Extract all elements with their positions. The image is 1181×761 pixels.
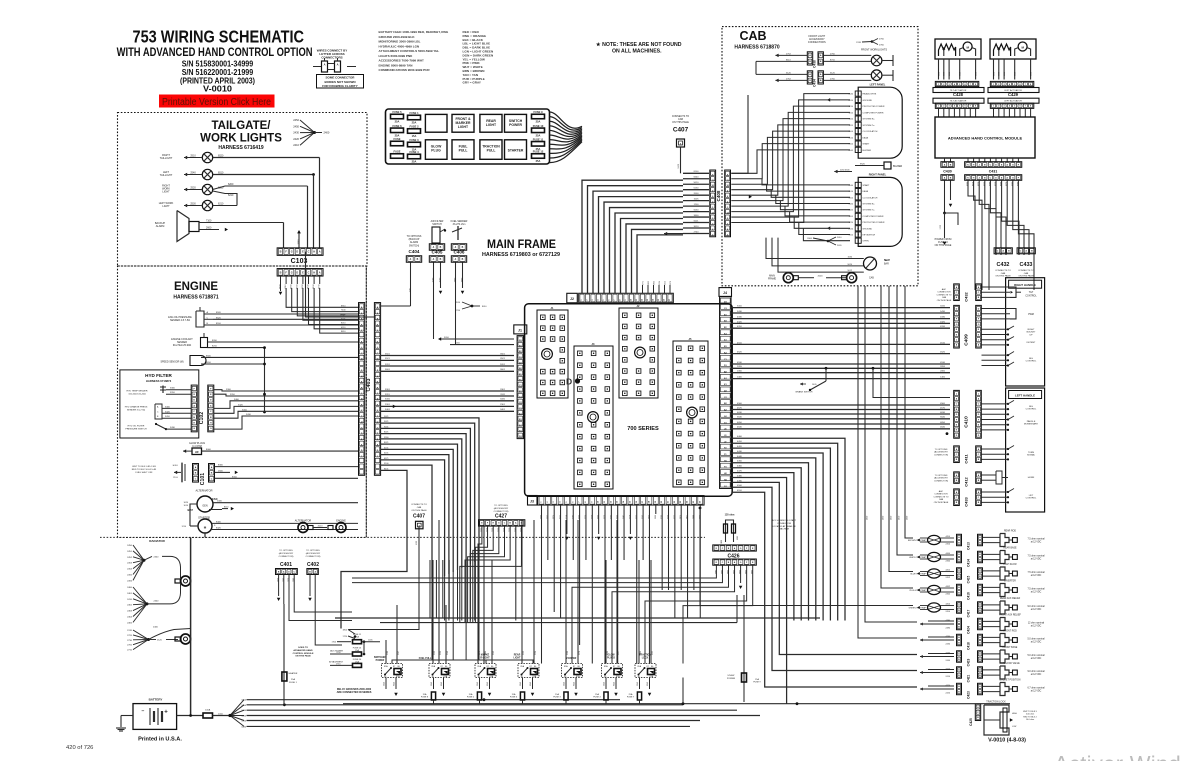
svg-text:A: A — [283, 570, 285, 573]
backup alarm speaker — [177, 211, 189, 242]
svg-text:B: B — [440, 259, 442, 261]
svg-text:8000: 8000 — [206, 449, 212, 451]
svg-text:5197: 5197 — [398, 651, 400, 655]
svg-text:J: J — [979, 177, 981, 179]
svg-text:COMPUTER POWER: COMPUTER POWER — [863, 112, 884, 114]
svg-text:E2: E2 — [724, 327, 727, 329]
svg-text:G3: G3 — [724, 486, 728, 488]
svg-text:CONNECTOR: CONNECTOR — [934, 494, 948, 496]
left actuator — [990, 39, 1036, 59]
connector J2 top — [567, 293, 578, 303]
svg-text:8710: 8710 — [456, 310, 461, 312]
svg-text:MAIN FRAME: MAIN FRAME — [487, 239, 556, 251]
svg-text:A: A — [944, 163, 946, 166]
svg-text:5330: 5330 — [949, 72, 951, 76]
svg-text:B: B — [958, 559, 960, 561]
svg-text:B: B — [1008, 251, 1010, 253]
solenoid connector C424 FRONT AUX RELIEF — [920, 622, 923, 625]
svg-text:6130: 6130 — [694, 188, 700, 190]
wire 4640 to handle — [948, 434, 950, 437]
svg-text:A2: A2 — [519, 424, 523, 427]
svg-text:15A: 15A — [469, 693, 473, 696]
svg-text:D2: D2 — [724, 391, 728, 393]
svg-text:LIGHTS 6000-6999 PNK: LIGHTS 6000-6999 PNK — [379, 54, 414, 58]
svg-text:★ NOTE: THESE ARE NOT FOUND: ★ NOTE: THESE ARE NOT FOUND — [596, 42, 682, 48]
svg-text:ON THIS PAGE: ON THIS PAGE — [411, 509, 427, 512]
svg-text:B: B — [979, 691, 981, 693]
svg-text:2451: 2451 — [127, 551, 133, 553]
svg-text:ON THIS PAGE: ON THIS PAGE — [295, 655, 311, 658]
svg-text:WORK LIGHTS: WORK LIGHTS — [200, 133, 282, 145]
connector C438 pair — [807, 52, 812, 65]
svg-text:B: B — [417, 259, 419, 261]
svg-text:FUSE 6: FUSE 6 — [510, 697, 518, 699]
svg-text:A: A — [734, 547, 736, 550]
svg-text:CONNECTS TO: CONNECTS TO — [1018, 270, 1034, 272]
svg-text:J4: J4 — [723, 291, 727, 295]
svg-text:C419: C419 — [967, 658, 971, 666]
svg-text:C434: C434 — [812, 79, 816, 87]
svg-text:A: A — [433, 246, 435, 249]
svg-text:G: G — [740, 548, 742, 550]
svg-text:2410: 2410 — [293, 143, 299, 147]
svg-text:2000: 2000 — [694, 193, 700, 195]
svg-text:OPEN: OPEN — [863, 241, 870, 243]
relay ground returns — [385, 689, 387, 704]
svg-text:G: G — [956, 324, 958, 326]
radiator dashed border — [100, 536, 705, 538]
svg-text:POWER: POWER — [376, 660, 385, 662]
arrow 2740 left — [664, 232, 667, 236]
svg-text:C407: C407 — [413, 514, 425, 520]
svg-text:F: F — [746, 562, 748, 564]
svg-text:4500: 4500 — [737, 485, 743, 487]
svg-text:A: A — [820, 54, 822, 57]
svg-text:2452: 2452 — [946, 577, 951, 579]
connector C103 mainframe side — [277, 269, 323, 277]
svg-text:BAR: BAR — [884, 263, 889, 266]
svg-text:8610: 8610 — [313, 283, 315, 288]
svg-text:3430: 3430 — [246, 414, 252, 416]
svg-text:A: A — [979, 536, 981, 539]
svg-text:2410: 2410 — [946, 676, 951, 678]
svg-text:FUSE 13: FUSE 13 — [353, 648, 362, 650]
svg-text:2410: 2410 — [127, 599, 133, 601]
svg-text:HARNESS 6718870: HARNESS 6718870 — [734, 45, 780, 51]
svg-text:−: − — [142, 709, 145, 715]
svg-text:TO OPTIONS: TO OPTIONS — [935, 475, 948, 477]
solenoid connector C421 HYD LOCK VALVE — [920, 671, 923, 674]
solenoid connector C423 BUCKET POSITION — [920, 687, 923, 690]
svg-text:86: 86 — [491, 666, 494, 668]
svg-text:C414: C414 — [967, 559, 971, 567]
svg-text:3: 3 — [553, 501, 555, 503]
svg-text:D: D — [978, 308, 980, 310]
svg-text:B: B — [309, 571, 311, 573]
svg-text:CONTROL: CONTROL — [1026, 498, 1037, 500]
svg-text:E: E — [302, 271, 304, 274]
svg-text:HYD TEMP SENDER: HYD TEMP SENDER — [127, 391, 148, 393]
svg-text:FRONT BASE: FRONT BASE — [1003, 646, 1018, 649]
svg-text:SPEED SENSOR (M): SPEED SENSOR (M) — [160, 361, 183, 364]
svg-text:FUSE 8: FUSE 8 — [421, 697, 429, 699]
svg-text:25A: 25A — [395, 120, 400, 124]
svg-text:9100: 9100 — [416, 541, 418, 545]
relay box front & marker light — [452, 114, 474, 132]
svg-text:8210: 8210 — [291, 283, 293, 288]
svg-text:25A: 25A — [395, 134, 400, 138]
svg-text:3401: 3401 — [500, 409, 506, 411]
svg-text:2: 2 — [587, 299, 589, 301]
heater fuse 1 wire — [283, 604, 285, 705]
wire bundle J2 to C408 — [582, 180, 683, 293]
svg-text:BUCKET POSITION: BUCKET POSITION — [1000, 680, 1021, 682]
svg-text:C: C — [193, 411, 195, 413]
svg-text:B2: B2 — [724, 403, 728, 405]
svg-text:9: 9 — [591, 501, 593, 503]
svg-text:BUCKET: BUCKET — [1027, 332, 1037, 334]
svg-text:B: B — [956, 502, 958, 504]
svg-text:3431: 3431 — [385, 399, 391, 401]
tilt actuator — [935, 39, 981, 59]
svg-text:BATTERY: BATTERY — [149, 698, 163, 702]
svg-text:J: J — [858, 185, 860, 187]
svg-text:HYDRAULIC 4000-4999 LGN: HYDRAULIC 4000-4999 LGN — [379, 44, 420, 48]
svg-text:M: M — [377, 359, 379, 361]
svg-text:2740: 2740 — [694, 231, 700, 233]
svg-text:CONNECTOR: CONNECTOR — [937, 292, 951, 294]
left handle internal verticals — [1015, 440, 1017, 460]
svg-text:13: 13 — [617, 500, 619, 503]
svg-text:C: C — [978, 454, 980, 456]
svg-text:at 12 VDC: at 12 VDC — [1031, 625, 1042, 628]
svg-text:C: C — [956, 404, 958, 406]
svg-text:9520: 9520 — [860, 164, 866, 166]
svg-text:HOLD: HOLD — [173, 465, 179, 467]
svg-text:HEATER: HEATER — [289, 672, 298, 675]
svg-text:GROUND: GROUND — [863, 100, 873, 102]
svg-text:HIGH: HIGH — [1012, 713, 1017, 715]
engine box right dashed border — [365, 266, 367, 537]
svg-text:5000: 5000 — [907, 516, 909, 520]
svg-text:15A: 15A — [555, 693, 559, 696]
svg-text:A: A — [958, 604, 960, 607]
svg-text:A: A — [314, 570, 316, 573]
svg-text:15: 15 — [629, 500, 631, 503]
svg-text:A: A — [157, 405, 159, 408]
svg-text:ACCESSORIES 7000-7999 WHT: ACCESSORIES 7000-7999 WHT — [379, 59, 425, 63]
svg-text:C438: C438 — [812, 60, 816, 68]
svg-text:85A: 85A — [478, 665, 482, 668]
wires C405 C406 into mainframe — [433, 302, 435, 339]
svg-text:3276: 3276 — [670, 281, 672, 285]
svg-text:6040: 6040 — [614, 682, 616, 686]
svg-text:3521: 3521 — [500, 358, 506, 360]
svg-text:B: B — [1031, 251, 1033, 253]
svg-text:5178: 5178 — [579, 651, 581, 655]
connector C102 — [191, 385, 197, 432]
svg-text:5192: 5192 — [493, 651, 495, 655]
svg-text:2040: 2040 — [477, 682, 479, 686]
connector C432 handle side — [954, 284, 960, 301]
svg-text:G: G — [1012, 164, 1014, 166]
svg-text:FRONT AUX RELIEF: FRONT AUX RELIEF — [999, 614, 1021, 617]
svg-text:24: 24 — [686, 500, 689, 503]
svg-text:REAR BASE: REAR BASE — [1003, 547, 1017, 550]
svg-text:15: 15 — [658, 298, 660, 301]
wires bundle vertical segment x407-479 — [392, 560, 479, 664]
svg-text:at 12 VDC: at 12 VDC — [1031, 673, 1042, 676]
svg-text:D: D — [716, 562, 718, 564]
svg-text:C: C — [504, 523, 506, 525]
svg-text:4: 4 — [1009, 105, 1011, 108]
svg-text:3410: 3410 — [737, 306, 743, 308]
svg-text:C406: C406 — [454, 250, 465, 255]
svg-text:B: B — [978, 297, 980, 299]
svg-text:2760: 2760 — [879, 45, 885, 47]
svg-text:2750: 2750 — [879, 39, 885, 41]
svg-text:ON THIS PAGE: ON THIS PAGE — [934, 501, 949, 504]
svg-text:D: D — [288, 571, 290, 573]
svg-text:J: J — [956, 339, 958, 341]
svg-text:C: C — [210, 411, 212, 413]
svg-text:B: B — [958, 576, 960, 578]
svg-text:4490: 4490 — [737, 480, 743, 482]
svg-text:COMMUNICATIONS 9000-9999 PUR: COMMUNICATIONS 9000-9999 PUR — [379, 68, 431, 72]
svg-text:H3: H3 — [724, 479, 728, 481]
connector C434 pair — [807, 71, 812, 84]
connector J4 right — [719, 288, 732, 297]
svg-text:CONTROL: CONTROL — [1025, 296, 1037, 298]
svg-text:11: 11 — [604, 500, 606, 503]
svg-text:2740: 2740 — [127, 630, 133, 632]
svg-text:12 ohm nominal: 12 ohm nominal — [1028, 623, 1045, 625]
note some connector bodies not shown — [317, 75, 364, 89]
svg-text:D: D — [978, 435, 980, 437]
svg-text:ALTERNATOR: ALTERNATOR — [195, 489, 212, 493]
svg-text:H1: H1 — [724, 460, 728, 462]
svg-text:22: 22 — [674, 500, 676, 503]
svg-text:A: A — [956, 344, 958, 347]
svg-text:FUSE 3: FUSE 3 — [553, 697, 561, 699]
svg-text:5: 5 — [603, 299, 605, 301]
svg-text:H: H — [857, 125, 859, 127]
svg-text:3300: 3300 — [226, 389, 232, 391]
svg-text:7: 7 — [579, 501, 581, 503]
svg-text:2010: 2010 — [837, 237, 842, 239]
svg-text:GEN: GEN — [202, 505, 207, 508]
svg-text:4460: 4460 — [737, 466, 743, 468]
svg-text:ADVANCED HAND CONTROL MODULE: ADVANCED HAND CONTROL MODULE — [948, 136, 1023, 141]
svg-text:8510: 8510 — [308, 283, 310, 288]
svg-text:3431: 3431 — [500, 399, 506, 401]
svg-text:TILT: TILT — [1029, 292, 1034, 294]
svg-text:C3: C3 — [724, 308, 728, 310]
svg-text:5021: 5021 — [694, 220, 700, 222]
svg-text:5166: 5166 — [567, 651, 569, 655]
right bucket up switch — [982, 328, 1009, 330]
svg-text:CAB: CAB — [942, 296, 947, 299]
svg-text:5201: 5201 — [500, 364, 506, 366]
svg-text:K: K — [956, 430, 958, 432]
svg-text:CAB: CAB — [869, 277, 874, 280]
svg-text:at 12 VDC: at 12 VDC — [1031, 641, 1042, 644]
svg-text:D1: D1 — [724, 365, 728, 367]
svg-text:C102: C102 — [199, 412, 205, 425]
svg-text:E: E — [956, 329, 958, 331]
svg-text:4320: 4320 — [737, 321, 743, 323]
svg-text:UP: UP — [1029, 334, 1033, 336]
svg-text:A: A — [211, 466, 213, 469]
svg-text:9.0 ohm nominal: 9.0 ohm nominal — [1028, 606, 1045, 608]
arrow 2010 left panel — [827, 98, 830, 102]
svg-text:2752: 2752 — [786, 53, 792, 55]
svg-text:F: F — [210, 388, 212, 390]
wires C403 to J1 group1 — [381, 355, 514, 357]
svg-text:2750: 2750 — [830, 53, 836, 55]
svg-text:700 SERIES: 700 SERIES — [627, 426, 659, 432]
actuator wires down — [938, 59, 940, 80]
svg-text:5320: 5320 — [944, 72, 946, 76]
svg-text:3832: 3832 — [648, 281, 650, 285]
svg-text:A: A — [193, 404, 195, 407]
svg-text:5134: 5134 — [535, 651, 537, 655]
svg-text:B: B — [857, 137, 859, 139]
svg-text:C: C — [1020, 251, 1022, 253]
svg-text:LEFT PANEL: LEFT PANEL — [870, 83, 886, 87]
svg-text:F: F — [1018, 164, 1020, 166]
svg-text:B: B — [979, 559, 981, 561]
svg-text:1010: 1010 — [218, 714, 224, 716]
svg-text:CONTROL: CONTROL — [1026, 409, 1037, 411]
svg-text:6210: 6210 — [218, 202, 224, 205]
svg-text:A: A — [979, 636, 981, 639]
svg-text:START: START — [863, 184, 871, 187]
svg-text:8: 8 — [620, 299, 622, 301]
svg-text:A: A — [979, 620, 981, 623]
svg-text:E: E — [978, 424, 980, 426]
horn switch — [982, 474, 997, 476]
svg-text:C428: C428 — [953, 92, 964, 97]
svg-text:F: F — [194, 388, 196, 390]
svg-text:1800: 1800 — [343, 630, 348, 632]
ground chain vertical 2000 — [264, 348, 266, 412]
svg-text:at 12 VDC: at 12 VDC — [1031, 608, 1042, 611]
svg-text:at 12 VDC: at 12 VDC — [1031, 574, 1042, 577]
svg-text:1: 1 — [581, 299, 583, 301]
svg-text:at 12 VDC: at 12 VDC — [1031, 690, 1042, 693]
svg-text:B: B — [157, 416, 159, 418]
svg-text:2060: 2060 — [298, 239, 300, 245]
svg-text:86: 86 — [618, 666, 621, 668]
svg-text:8100: 8100 — [694, 171, 700, 173]
svg-text:85A: 85A — [564, 665, 568, 668]
svg-text:D: D — [716, 548, 718, 550]
connector J1 — [514, 325, 527, 334]
svg-text:A: A — [958, 685, 960, 688]
svg-text:C409: C409 — [964, 334, 970, 346]
svg-text:REAR ROD: REAR ROD — [1004, 530, 1016, 533]
wire stubs J2 pins up — [642, 285, 644, 293]
svg-text:REAR: REAR — [514, 654, 521, 657]
svg-text:F: F — [487, 523, 489, 525]
svg-text:A: A — [958, 570, 960, 573]
svg-text:A: A — [958, 536, 960, 539]
svg-text:2400: 2400 — [324, 131, 330, 135]
svg-text:5.0 ohm nominal: 5.0 ohm nominal — [1028, 639, 1045, 641]
wires J3 down — [541, 505, 543, 514]
svg-text:RADIATOR: RADIATOR — [149, 539, 165, 543]
svg-text:25A: 25A — [629, 693, 633, 696]
svg-text:4630: 4630 — [940, 412, 946, 414]
svg-text:87: 87 — [530, 666, 533, 668]
svg-text:5.00 ohm: 5.00 ohm — [1026, 714, 1035, 716]
svg-text:V-0010: V-0010 — [203, 84, 232, 94]
svg-text:HARNESS 6718873: HARNESS 6718873 — [146, 379, 172, 383]
svg-text:C2: C2 — [724, 397, 728, 399]
svg-text:9120: 9120 — [737, 536, 739, 540]
svg-text:8420: 8420 — [216, 528, 222, 530]
svg-text:CAB: CAB — [1024, 272, 1029, 275]
svg-text:LIGHT: LIGHT — [162, 205, 170, 208]
relay box fuel pull — [452, 140, 474, 160]
svg-text:B: B — [979, 626, 981, 628]
svg-text:6200: 6200 — [228, 183, 234, 186]
svg-text:C411: C411 — [964, 454, 969, 464]
svg-text:CONTROL: CONTROL — [1026, 361, 1037, 363]
svg-text:3410: 3410 — [242, 409, 248, 411]
svg-text:FOR DRAWING CLARITY: FOR DRAWING CLARITY — [322, 84, 358, 88]
svg-text:87: 87 — [613, 666, 616, 668]
svg-text:TO OPTIONS: TO OPTIONS — [306, 550, 320, 552]
svg-text:15A: 15A — [512, 693, 516, 696]
svg-text:6040: 6040 — [530, 682, 532, 686]
svg-text:HORN: HORN — [1028, 477, 1035, 479]
wires J4 to right handle connectors — [731, 307, 950, 309]
svg-text:SIGNAL: SIGNAL — [1027, 454, 1036, 457]
svg-text:2462: 2462 — [946, 594, 951, 596]
svg-text:E: E — [1001, 164, 1003, 166]
svg-text:K: K — [967, 177, 969, 179]
svg-text:4400: 4400 — [737, 436, 743, 438]
svg-text:PADDLE: PADDLE — [1027, 420, 1036, 423]
svg-text:4: 4 — [1009, 83, 1011, 86]
svg-text:E: E — [1001, 177, 1003, 179]
svg-text:H: H — [973, 164, 975, 166]
svg-text:B: B — [977, 717, 979, 719]
svg-text:4: 4 — [559, 501, 562, 503]
svg-text:15A: 15A — [423, 693, 427, 696]
svg-text:F3: F3 — [724, 467, 727, 469]
svg-text:C416: C416 — [967, 592, 971, 600]
svg-text:2600: 2600 — [218, 470, 224, 472]
connector J3 bottom — [528, 496, 538, 506]
svg-text:4330: 4330 — [940, 317, 946, 319]
svg-text:3154: 3154 — [659, 281, 661, 285]
svg-text:PLUGS: PLUGS — [607, 657, 615, 659]
svg-text:GROUND 2000-2999 BLK: GROUND 2000-2999 BLK — [379, 35, 416, 39]
svg-text:5201: 5201 — [385, 364, 391, 366]
svg-text:MACHINE: MACHINE — [779, 528, 790, 531]
solenoid connector C415 HIGH FLOW — [928, 569, 941, 578]
svg-text:F1: F1 — [724, 454, 727, 456]
svg-text:G1: G1 — [724, 422, 728, 424]
svg-text:B: B — [958, 642, 960, 644]
svg-text:4310: 4310 — [737, 326, 743, 328]
svg-text:A: A — [979, 570, 981, 573]
svg-text:POWER: POWER — [509, 123, 522, 127]
svg-text:B: B — [809, 61, 811, 63]
